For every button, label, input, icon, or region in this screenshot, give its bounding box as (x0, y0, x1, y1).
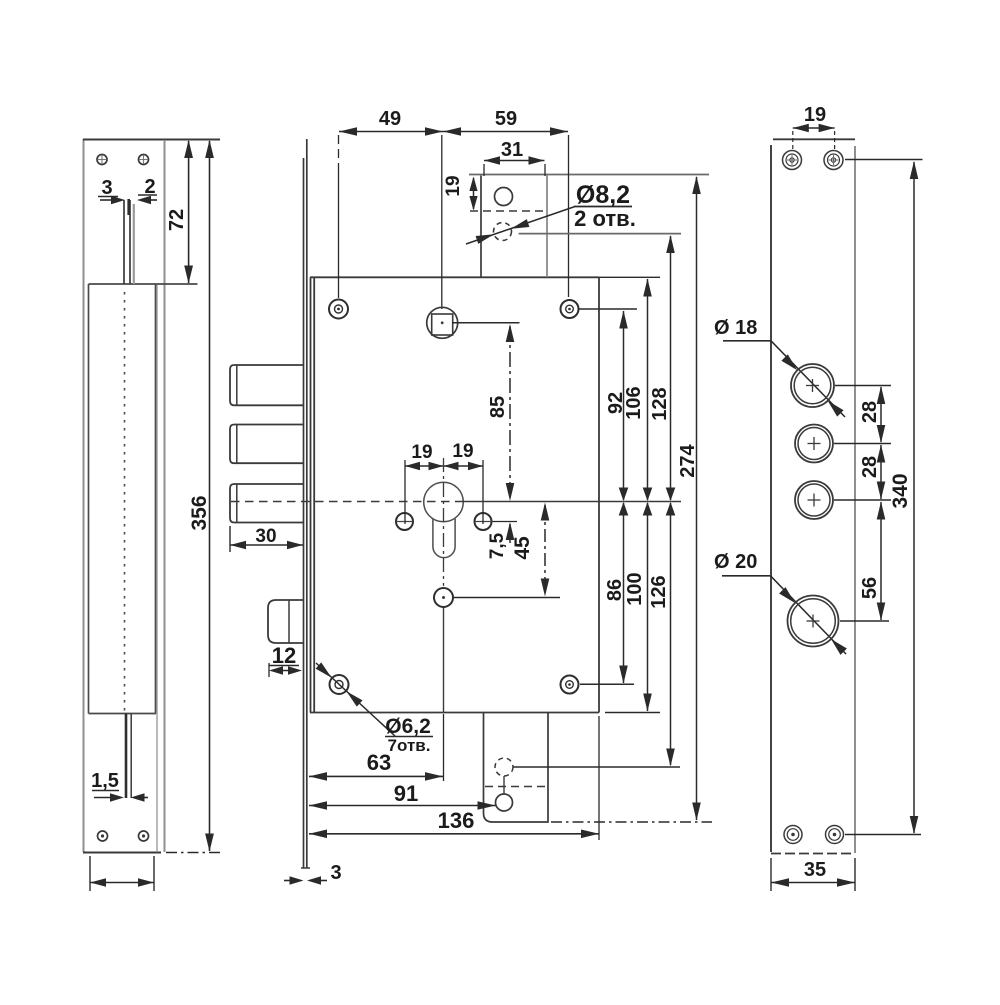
svg-text:106: 106 (623, 386, 645, 419)
label 2 underline (138, 194, 157, 196)
svg-text:19: 19 (452, 441, 473, 462)
euro cylinder hole (424, 482, 464, 522)
right plate left edge (770, 145, 772, 852)
horizontal centerline dashed part (231, 501, 462, 503)
dim 100 line (647, 503, 649, 711)
svg-text:31: 31 (501, 139, 523, 161)
dim 106 top reference line (599, 276, 660, 278)
lock body right edge (598, 277, 600, 712)
leader diameter 8,2 (466, 207, 575, 245)
svg-text:128: 128 (649, 387, 671, 420)
svg-text:7отв.: 7отв. (388, 736, 431, 755)
dim 126 line (670, 503, 672, 765)
upper tab left edge (480, 176, 482, 278)
upper tab top / 274 reference line (469, 174, 709, 176)
svg-text:19: 19 (804, 104, 826, 126)
left plate inner window bottom line (89, 713, 157, 715)
label 1,5 underline (92, 790, 119, 792)
lock body bottom edge (310, 712, 599, 714)
dim 35 extension lines (770, 858, 772, 891)
dim 19 (tab) line (473, 178, 475, 209)
top slot line 2 (129, 200, 131, 284)
svg-text:35: 35 (804, 859, 826, 881)
left plate inner window left edge (88, 284, 90, 714)
dim 106 line (647, 279, 649, 500)
svg-text:28: 28 (859, 456, 881, 478)
left plate inner window right edge (155, 284, 157, 714)
label 3 underline (98, 196, 118, 198)
latch bolt (268, 600, 304, 643)
svg-text:59: 59 (495, 108, 517, 130)
dim 3 strip arrows (284, 880, 292, 882)
lower tab connecting line (503, 776, 505, 795)
top screw hole left (97, 155, 107, 165)
top screw hole right (561, 300, 579, 318)
dim 126 reference line (514, 766, 681, 768)
faceplate strip bottom tick (301, 867, 310, 869)
spindle reference line (452, 322, 520, 324)
dim 63 line (309, 775, 443, 777)
hidden hole (dashed circle) (494, 223, 512, 241)
dim 100 bottom reference line (605, 712, 660, 714)
svg-text:12: 12 (272, 643, 296, 668)
faceplate strip edge-on line 2 (306, 139, 308, 868)
upper tab right edge (546, 176, 548, 278)
spindle square hole (427, 307, 458, 338)
svg-text:19: 19 (411, 442, 432, 463)
hole 18 top (791, 364, 834, 407)
bottom screw hole right (139, 831, 149, 841)
dim 340 top reference line (845, 159, 923, 161)
right plate bottom screw left (784, 826, 802, 844)
svg-text:2 отв.: 2 отв. (574, 206, 636, 231)
bottom slot thin line (130, 714, 132, 799)
svg-text:85: 85 (487, 396, 509, 418)
deadbolt 2 (230, 425, 304, 464)
leader diameter 20 (771, 576, 847, 654)
reference lines to 28 dims (835, 385, 891, 387)
dim 340 line (913, 162, 915, 833)
svg-text:49: 49 (379, 108, 401, 130)
left plate right edge (164, 140, 166, 852)
top slot dark tick (127, 199, 130, 215)
hole 20 reference line (840, 620, 889, 622)
dim 35 line (771, 882, 855, 884)
left plate top edge (extends right as extension line for dims 72 and 356) (83, 139, 220, 141)
dim 340 bottom reference line (845, 834, 921, 836)
lower center hole reference line (454, 597, 560, 599)
cylinder fixing hole right (475, 513, 492, 530)
left plate inner window top line (89, 283, 198, 285)
dim 49 extension lines (338, 135, 340, 172)
svg-text:100: 100 (624, 572, 646, 605)
right plate right edge (854, 146, 856, 853)
svg-text:Ø8,2: Ø8,2 (576, 181, 630, 209)
label 12 underline (269, 665, 299, 667)
dim 356 line (209, 141, 211, 851)
lower center hole (434, 588, 453, 607)
svg-text:Ø6,2: Ø6,2 (385, 715, 431, 738)
dim 92 top reference line (579, 308, 638, 310)
dim 1,5 right arrow (142, 797, 148, 799)
top screw hole left (329, 300, 348, 319)
dim 7,5 arrow (509, 524, 511, 543)
bottom dash-dot extension (166, 852, 222, 854)
cylinder fixing hole left (396, 513, 413, 530)
dim 128 top reference line (519, 233, 681, 235)
svg-text:3: 3 (330, 862, 341, 884)
dim 136 line (309, 833, 599, 835)
upper tab hole (495, 188, 513, 206)
right plate top edge (773, 138, 855, 140)
dim 19 extension dashes (792, 131, 794, 152)
dim 28 upper (880, 387, 882, 442)
right plate bottom screw right (826, 826, 844, 844)
bottom screw hole left (98, 831, 108, 841)
svg-text:7,5: 7,5 (487, 532, 508, 559)
svg-text:Ø 20: Ø 20 (714, 551, 757, 573)
svg-text:45: 45 (511, 536, 534, 560)
bottom screws reference line (580, 683, 634, 685)
hole 20 (788, 596, 839, 647)
dim 28 lower (880, 445, 882, 499)
dim 3-2 right arrow (148, 199, 157, 201)
right plate top screw left (783, 151, 802, 170)
deadbolt 1 (230, 365, 304, 405)
top slot gray line (133, 204, 135, 284)
horizontal centerline solid part (462, 501, 681, 503)
dim 56 (880, 502, 882, 620)
bottom width dim extension lines (89, 856, 91, 891)
dim 86 line (623, 503, 625, 683)
bottom screw hole right (561, 676, 579, 694)
dim 30 line (230, 544, 303, 546)
svg-text:340: 340 (889, 473, 912, 508)
dim 274 line (696, 177, 698, 820)
faceplate strip edge-on line 1 (303, 158, 305, 868)
dim 3-2 left arrow (100, 199, 113, 201)
dim 31 line (484, 160, 545, 162)
dim 92 line (623, 311, 625, 500)
svg-text:3: 3 (101, 177, 112, 199)
lower tab outline (484, 713, 549, 823)
right plate bottom edge (dashed) (771, 853, 855, 855)
dim 19/19 extension lines (404, 460, 406, 524)
dim 12 arrows (268, 663, 270, 677)
svg-text:28: 28 (859, 401, 881, 423)
dim 45 line (544, 505, 546, 594)
top screw hole right (139, 155, 149, 165)
leader diameter 6,2 (316, 663, 395, 736)
svg-text:86: 86 (604, 579, 626, 601)
left plate bottom edge (83, 852, 161, 854)
dim 31 extension lines (483, 164, 485, 176)
left plate left edge (83, 139, 85, 852)
leader diameter 18 (771, 341, 845, 417)
dim 72 line (188, 141, 190, 283)
right plate top screw right (824, 151, 843, 170)
hole 18 middle (795, 425, 833, 463)
svg-text:Ø 18: Ø 18 (714, 317, 757, 339)
lower tab hidden hole (dashed circle) (495, 758, 513, 776)
dim 19 (top) line (793, 127, 835, 129)
dash-dot line at lower tab bottom (551, 821, 712, 823)
upper tab dashed line (470, 210, 544, 212)
vertical centerline segments (443, 607, 445, 712)
dim 91 line (309, 805, 496, 807)
svg-text:126: 126 (648, 575, 670, 608)
svg-text:56: 56 (859, 577, 881, 599)
svg-text:274: 274 (677, 443, 699, 477)
dim 85 line (509, 326, 511, 500)
dim 49/59 line (339, 131, 568, 133)
svg-text:72: 72 (166, 209, 188, 231)
dim 128 line (670, 236, 672, 500)
lock body top edge (310, 276, 599, 278)
svg-text:91: 91 (394, 781, 418, 806)
left plate dotted centerline (124, 292, 126, 712)
lock body left double edge (310, 277, 312, 712)
dim 19/19 line (405, 465, 483, 467)
deadbolt 3 (230, 484, 304, 523)
svg-text:356: 356 (188, 495, 211, 530)
svg-text:30: 30 (255, 526, 276, 547)
bottom slot thick line (125, 714, 128, 799)
dim 1,5 left arrow (94, 797, 112, 799)
hole 18 bottom (795, 481, 833, 519)
top slot line 1 (123, 200, 125, 284)
dim 30 extension line (229, 526, 231, 552)
bottom width dim line (90, 882, 154, 884)
lower tab dashed line (485, 786, 548, 788)
left plate inner right edge (156, 285, 158, 851)
svg-text:63: 63 (367, 750, 391, 775)
bottom screw hole left (330, 675, 349, 694)
lower tab hole (496, 794, 513, 811)
svg-text:136: 136 (438, 808, 475, 833)
svg-text:1,5: 1,5 (91, 770, 119, 792)
svg-text:19: 19 (443, 175, 464, 196)
dim 136 extension line (598, 716, 600, 840)
